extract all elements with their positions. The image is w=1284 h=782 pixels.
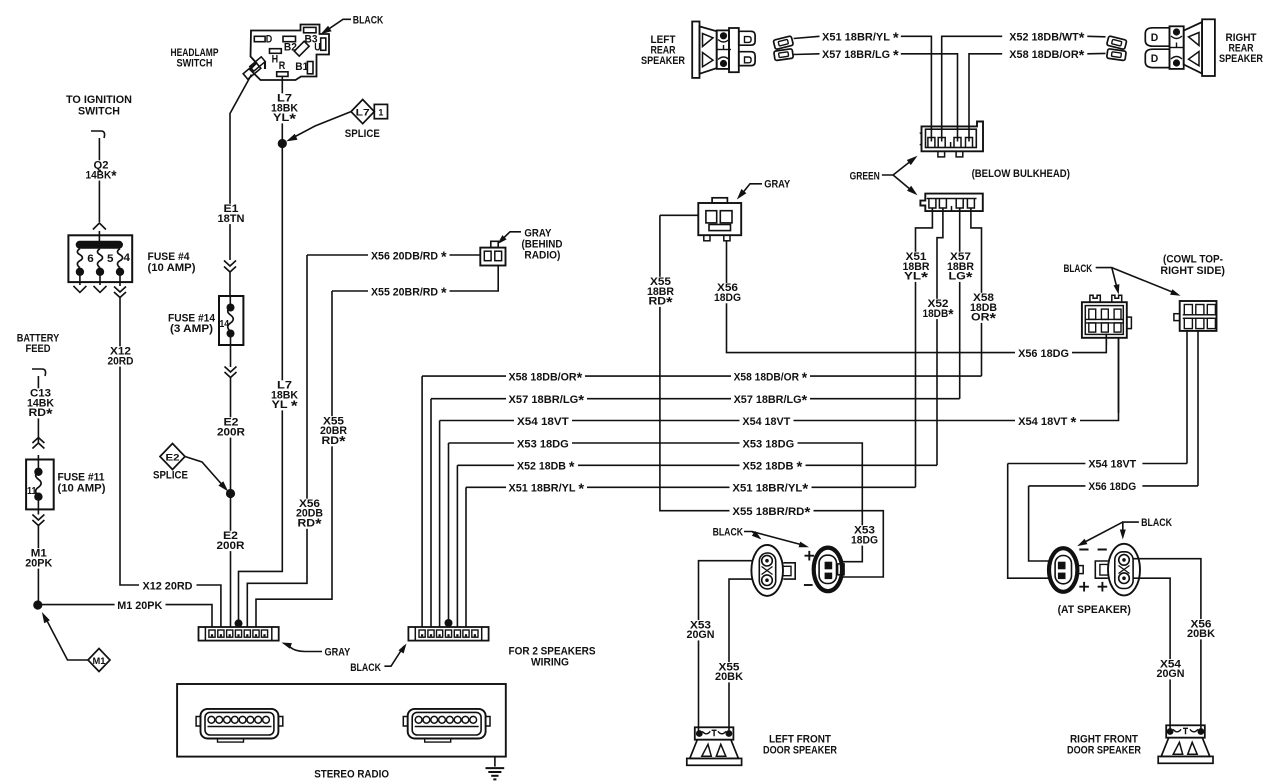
label X54 18VT * right [1015,413,1080,427]
wire X57 to bulkhead [901,54,958,142]
svg-text:(3 AMP): (3 AMP) [170,323,213,335]
wire row X57 18BR/LG [431,399,960,627]
break chevrons below fuse #14 [225,367,237,373]
label E2 200R lower [215,531,247,551]
label X57 18BR/LG* left [506,392,587,406]
wire X56 18DG from black connector [1105,338,1107,345]
break arrow above fuse #4 [93,223,106,230]
svg-text:X54 18VT: X54 18VT [742,416,790,428]
svg-text:5: 5 [107,253,114,265]
wire X58 from bulkhead to row [971,208,982,376]
label X56 20BK [1185,619,1217,639]
splice symbol L7 [351,100,374,124]
plus signs right pair [1079,582,1089,592]
minus sign left pair [804,584,813,586]
fuse #14 block [219,296,243,345]
headlamp switch pin B3 [304,27,316,32]
connector GRAY 2-pin [698,203,741,235]
break chevrons on wire X12 below fuse #4 [114,287,126,293]
left door black oval connector [814,548,842,592]
svg-text:H: H [272,53,279,65]
stereo radio box [177,684,506,757]
svg-text:(BELOW BULKHEAD): (BELOW BULKHEAD) [972,168,1071,180]
label X52 18DB* [921,299,956,319]
label E2 200R upper [215,417,247,437]
svg-text:BLACK: BLACK [350,662,381,674]
wire X54 18VT from black connector [1118,338,1120,413]
junction dot above radio gray connector pin 4 [235,619,243,627]
svg-text:X56 18DG: X56 18DG [1088,481,1136,493]
stereo radio right connector [408,709,486,739]
svg-text:D: D [1151,32,1159,44]
svg-text:1: 1 [378,107,384,118]
svg-text:E2: E2 [166,452,180,463]
svg-text:M1 20PK: M1 20PK [117,600,162,612]
label C13 14BK RD* [25,388,56,418]
left rear speaker [692,22,699,78]
svg-text:STEREO RADIO: STEREO RADIO [314,769,389,781]
svg-text:FEED: FEED [26,343,51,355]
plus sign left pair [805,551,815,561]
splice symbol M1 [88,649,110,672]
svg-text:BLACK: BLACK [353,15,384,27]
wire M1 20PK vertical [37,500,39,515]
svg-text:6: 6 [87,253,94,265]
svg-text:200R: 200R [217,540,245,552]
black 6-pin connector [1082,302,1127,338]
label Q2 14BK* [84,160,119,180]
wire X54 20GN from gray oval to right door speaker [1133,578,1170,729]
connector GRAY (BEHIND RADIO) 2-pin [480,248,505,266]
wire row X55 18BR/RD [660,215,883,577]
label X56 18DG vertical stack [712,283,743,303]
label X54 20GN [1155,659,1187,679]
svg-text:DOOR SPEAKER: DOOR SPEAKER [1067,744,1141,756]
wire X52 from bulkhead to row [937,208,943,465]
wire Q2 14BK from ignition to fuse #4 [98,138,100,222]
label X55 18BR/RD* inline [730,504,814,518]
ground symbol [494,757,496,767]
stereo radio left connector [201,709,279,739]
right rear speaker [1145,28,1169,46]
svg-text:D: D [266,33,273,45]
right door gray oval connector [1108,544,1140,596]
label X58 18DB/OR * right [731,369,810,383]
label X12 20RD vertical [106,346,136,366]
svg-text:20RD: 20RD [108,355,134,367]
svg-text:14: 14 [220,319,230,330]
svg-text:GRAY: GRAY [325,646,351,658]
label E1 18TN [216,204,247,224]
svg-text:X53 18DG: X53 18DG [517,438,569,450]
green bulkhead connector lower [920,194,982,212]
svg-text:20BK: 20BK [715,671,743,683]
right door black oval connector [1049,548,1077,592]
label M1 20PK vertical [23,548,54,568]
headlamp switch pin B2 [283,36,296,41]
headlamp switch body [250,25,329,81]
label X57 18BR LG* [945,252,976,282]
wire X56 20DB/RD [307,254,368,256]
left door gray oval connector [751,545,783,596]
label X56 18DG inline [1015,345,1072,359]
label X51 18BR YL* [901,252,932,282]
fuse #4 element pin 4 [118,249,123,268]
svg-text:B1: B1 [295,61,308,73]
break chevrons on E1 [224,261,236,267]
wire X55 stub from gray 2-pin [660,214,698,216]
radio connector GRAY 8-way [199,627,279,641]
label X56 20DB RD* vertical [294,499,325,529]
svg-text:GRAY: GRAY [764,178,791,190]
label X58 18DB/OR* left [506,369,585,383]
label X52 18DB * left [514,458,578,472]
label X54 18VT mid [740,413,794,427]
headlamp switch pin R [277,72,288,77]
wire clip to X57 label [794,53,820,56]
svg-text:GREEN: GREEN [850,171,880,183]
svg-text:18DG: 18DG [714,292,741,304]
svg-text:D: D [1151,53,1159,65]
svg-text:20PK: 20PK [25,557,52,569]
svg-text:BLACK: BLACK [713,527,743,539]
wire row X51 18BR/YL [466,487,916,626]
minus signs right pair [1079,549,1107,551]
splice symbol E2 [160,444,185,470]
wire X56 20BK from gray oval to right door speaker [1133,559,1201,729]
svg-text:X54 18VT: X54 18VT [517,416,569,428]
svg-text:SPLICE: SPLICE [153,470,188,482]
svg-text:(AT SPEAKER): (AT SPEAKER) [1058,604,1132,616]
label X55 20BK [713,662,745,682]
svg-text:M1: M1 [93,656,107,667]
wire row2 X56 18DG [1029,486,1198,561]
fuse #11 block [26,460,54,510]
wire X53 20GN from gray oval to left door speaker [699,561,752,731]
svg-text:DOOR SPEAKER: DOOR SPEAKER [763,744,837,756]
svg-text:RIGHT SIDE): RIGHT SIDE) [1160,265,1225,277]
left front door speaker [695,727,734,739]
break chevrons above fuse #11 [32,443,44,449]
wire X58 to bulkhead [969,54,1002,142]
wire row2 X54 18VT [1008,464,1187,579]
svg-text:200R: 200R [217,426,245,438]
junction dot E2 splice [226,489,235,498]
label L7 18BK YL* lower [269,380,300,410]
wire row X52 18DB [457,465,937,626]
fuse #4 element pin 5 [98,249,103,268]
label X55 18BR RD* vertical stack [645,277,676,307]
fuse #4 block [68,235,132,282]
headlamp switch pin I [243,63,261,79]
headlamp switch pin diagonal [294,41,309,56]
svg-text:4: 4 [124,252,131,264]
wire E2 200R from fuse #14 to radio gray connector [230,337,232,367]
svg-text:R: R [279,60,286,72]
svg-text:U: U [314,42,321,54]
fuse #4 element pin 6 [77,249,82,268]
label X51 18BR/YL* right [730,480,812,494]
svg-text:SPLICE: SPLICE [345,128,380,140]
svg-text:RADIO): RADIO) [524,250,560,262]
svg-text:WIRING: WIRING [531,656,569,668]
label X53 18DG right [740,436,798,450]
label X53 18DG left [514,436,572,450]
wire L7 18BK YL from headlamp switch pin R [239,76,283,626]
connector half battery feed [32,369,46,376]
wire X55 20BK from gray oval to left door speaker [729,579,752,731]
svg-text:L7: L7 [356,107,370,118]
svg-text:BLACK: BLACK [1141,517,1172,529]
label X52 18DB * right [740,458,806,472]
wire row X58 18DB/OR [422,376,981,626]
junction dot above radio black connector [445,619,453,627]
wire X52 to bulkhead [942,36,1003,141]
label X53 20GN [685,620,717,640]
label X54 18VT left [514,413,572,427]
label X55 20BR RD* vertical [318,416,349,446]
svg-text:20GN: 20GN [1157,668,1185,680]
wire row X54 18VT [440,338,1119,627]
break chevrons below fuse #11 [32,515,44,521]
wire X52 label to clip [1087,35,1105,38]
connector half to ignition switch [91,131,105,138]
svg-text:20GN: 20GN [687,629,715,641]
label X57 18BR/LG* right [731,392,810,406]
wire M1 20PK horizontal to radio connector [42,604,115,606]
headlamp switch pin U [321,38,326,50]
svg-text:18TN: 18TN [218,213,245,225]
wire X51 from bulkhead to row [916,208,933,487]
junction dot M1 [33,600,42,609]
svg-text:X12 20RD: X12 20RD [143,580,193,592]
svg-text:20BK: 20BK [1187,628,1215,640]
label X51 18BR/YL * left [506,480,587,494]
label X54 18VT row2 [1085,456,1142,470]
svg-text:X53 18DG: X53 18DG [743,438,795,450]
green bulkhead connector upper [922,122,984,152]
label X58 18DB OR* [968,293,999,323]
junction dot on L7 at splice [278,139,287,148]
svg-text:18DG: 18DG [851,534,878,546]
cowl top connector [1180,301,1217,331]
label X53 18DG stacked near left door connector [849,525,880,545]
right front door speaker [1166,725,1205,737]
svg-text:SWITCH: SWITCH [177,58,213,70]
svg-text:(10 AMP): (10 AMP) [148,262,196,274]
svg-text:X56 18DG: X56 18DG [1018,348,1069,360]
headlamp switch pin H [270,49,282,54]
radio connector BLACK 8-way [408,627,488,641]
left speaker clip [773,36,793,50]
label L7 18BK YL* upper [269,93,300,123]
wire X12 20RD [120,298,139,586]
headlamp switch pin D [254,36,265,41]
svg-text:(10 AMP): (10 AMP) [58,482,106,494]
wire E1 18TN from headlamp switch to fuse #14 [230,75,252,261]
wire X57 from bulkhead to row [959,208,961,399]
svg-text:X54 18VT: X54 18VT [1088,459,1136,471]
svg-text:I: I [263,60,267,72]
wire row X53 18DG [449,443,863,627]
wire X55 20BR/RD [332,290,368,292]
wire X51 to bulkhead [901,36,932,141]
svg-text:SPEAKER: SPEAKER [1219,53,1263,65]
svg-text:BLACK: BLACK [1064,263,1093,275]
wire X58 label to clip [1087,52,1105,54]
svg-text:11: 11 [27,486,37,497]
svg-text:SWITCH: SWITCH [78,106,120,118]
wire row X56 18DG [727,241,1107,353]
wire cowl pin to X54 row2 [1186,331,1188,464]
label X56 18DG row2 [1085,479,1142,493]
wire cowl pin to X56 row2 [1197,331,1199,486]
headlamp switch pin B1 [307,62,313,74]
svg-text:(COWL TOP-: (COWL TOP- [1163,254,1223,266]
wire clip to X51 label [794,36,820,38]
right speaker clip [1107,36,1127,50]
wire C13 from battery feed to fuse #11 [37,376,39,443]
svg-text:SPEAKER: SPEAKER [641,55,685,67]
svg-text:TO IGNITION: TO IGNITION [66,94,132,106]
